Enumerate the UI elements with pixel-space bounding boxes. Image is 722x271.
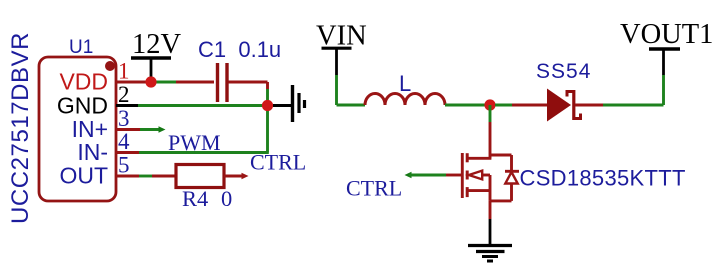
svg-text:OUT: OUT xyxy=(59,163,108,189)
svg-text:2: 2 xyxy=(118,82,130,107)
svg-text:CTRL: CTRL xyxy=(346,176,402,201)
svg-text:3: 3 xyxy=(118,106,130,131)
svg-text:R4: R4 xyxy=(182,186,208,211)
svg-text:VDD: VDD xyxy=(59,69,108,95)
svg-text:GND: GND xyxy=(57,93,108,119)
svg-text:CTRL: CTRL xyxy=(250,150,306,175)
svg-text:SS54: SS54 xyxy=(536,60,591,83)
svg-text:VOUT1: VOUT1 xyxy=(620,19,713,50)
svg-text:C1 0.1u: C1 0.1u xyxy=(198,37,281,62)
svg-text:1: 1 xyxy=(118,59,130,84)
svg-text:12V: 12V xyxy=(132,29,182,60)
svg-text:UCC27517DBVR: UCC27517DBVR xyxy=(7,32,34,224)
svg-text:U1: U1 xyxy=(69,37,93,58)
svg-text:CSD18535KTTT: CSD18535KTTT xyxy=(520,166,686,191)
svg-text:5: 5 xyxy=(118,153,130,178)
svg-text:L: L xyxy=(399,71,411,96)
svg-text:4: 4 xyxy=(118,129,130,154)
svg-text:IN-: IN- xyxy=(77,139,108,165)
svg-text:0: 0 xyxy=(221,186,232,211)
